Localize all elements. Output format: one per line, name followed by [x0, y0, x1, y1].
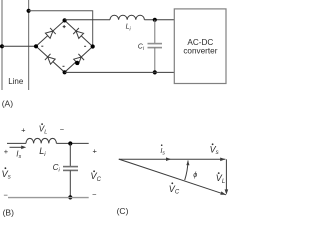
svg-text:Ci: Ci: [138, 44, 145, 53]
svg-text:VC: VC: [169, 184, 180, 196]
svg-text:(A): (A): [2, 98, 14, 108]
svg-text:Is: Is: [160, 146, 165, 157]
wire B bottom: [8, 197, 89, 199]
capacitor Ci (B) lead bottom: [69, 170, 71, 197]
wire inductor to box top: [144, 19, 174, 21]
svg-text:VL: VL: [39, 125, 48, 136]
arrowhead VL: [225, 189, 229, 194]
wire line2 over bridge to right vertex: [29, 11, 93, 47]
svg-text:Is: Is: [16, 149, 21, 160]
svg-text:ϕ: ϕ: [193, 170, 197, 179]
svg-text:−: −: [4, 191, 9, 200]
svg-text:(C): (C): [117, 206, 129, 216]
svg-text:Li: Li: [39, 146, 46, 158]
svg-text:−: −: [60, 125, 65, 134]
svg-text:−: −: [92, 190, 97, 199]
label - right vertex: [84, 45, 86, 47]
wire bottom vertex to box: [65, 71, 175, 73]
svg-text:+: +: [93, 147, 98, 156]
current arrow Is: [10, 146, 23, 148]
node on line 2: [27, 9, 31, 13]
svg-text:Li: Li: [126, 24, 132, 33]
node bottom vertex: [63, 70, 67, 74]
capacitor Ci (A) lead bottom: [154, 48, 156, 73]
svg-text:Vs: Vs: [2, 169, 11, 181]
diode D1 top-left: [45, 28, 55, 38]
svg-text:VC: VC: [90, 171, 101, 183]
diode D3 bottom-left: [45, 54, 55, 64]
phasor VC diagonal line: [119, 159, 226, 195]
node B cap top: [68, 141, 72, 145]
arrowhead VC: [220, 191, 226, 194]
arrowhead Vs: [220, 158, 225, 162]
svg-text:Line: Line: [8, 77, 24, 86]
svg-text:(B): (B): [3, 207, 15, 217]
wire line1 to bridge left vertex: [2, 45, 36, 47]
node capacitor bottom: [153, 70, 157, 74]
bridge diamond wires: [36, 20, 93, 72]
capacitor Ci (A) lead top: [154, 20, 156, 44]
junction dot on D4 anode: [75, 61, 79, 65]
svg-text:Ci: Ci: [53, 163, 61, 174]
label - bottom vertex: [63, 65, 65, 67]
node B cap bottom: [68, 195, 72, 199]
wire B top-right: [56, 142, 88, 144]
node left vertex: [34, 44, 38, 48]
svg-text:+: +: [21, 125, 26, 134]
phasor horizontal Vs line: [119, 158, 226, 160]
node right vertex: [91, 44, 95, 48]
capacitor Ci (B) plates: [63, 166, 78, 168]
phasor VL vertical line: [225, 159, 227, 193]
svg-text:VL: VL: [216, 173, 225, 185]
arrowhead Is: [166, 157, 171, 161]
angle phi arc: [185, 161, 188, 181]
capacitor Ci (A) plates: [148, 43, 163, 45]
svg-text:+: +: [4, 147, 9, 156]
diode D2 top-right: [73, 28, 83, 38]
wire top vertex to inductor: [65, 19, 110, 21]
AC line conductor 2: [28, 0, 30, 90]
svg-text:Vs: Vs: [210, 145, 219, 157]
arrowhead phi arc: [186, 161, 189, 166]
AC-DC converter box: [174, 9, 226, 84]
inductor Li (A): [110, 15, 144, 20]
AC line conductor 1: [1, 0, 3, 90]
wire B top-left: [7, 142, 26, 144]
capacitor Ci (B) lead top: [69, 144, 71, 167]
label + top vertex: [63, 25, 66, 28]
node on line 1: [0, 44, 4, 48]
node capacitor top: [153, 18, 157, 22]
svg-text:converter: converter: [183, 47, 217, 56]
label - left vertex: [41, 45, 43, 47]
node top vertex: [63, 18, 67, 22]
inductor Li (B): [26, 138, 56, 143]
diode D4 bottom-right: [74, 54, 84, 64]
